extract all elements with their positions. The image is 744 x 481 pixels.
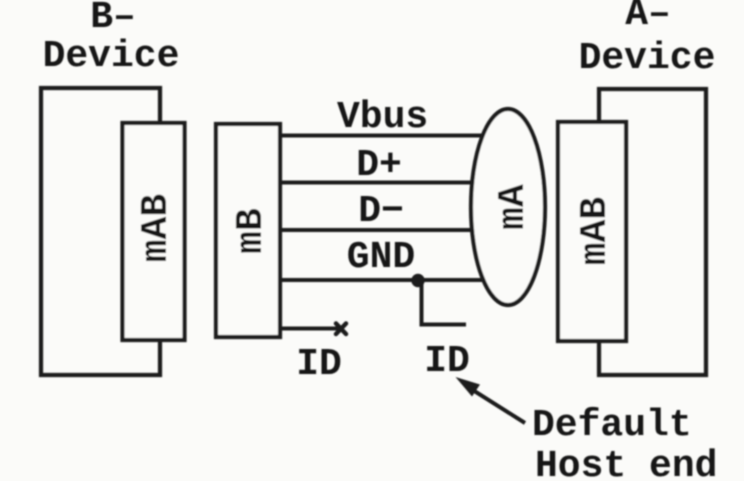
svg-text:mA: mA — [492, 184, 535, 230]
B-Device outer box — [41, 88, 160, 375]
svg-text:ID: ID — [296, 343, 342, 386]
svg-text:mAB: mAB — [574, 197, 617, 265]
svg-text:mAB: mAB — [135, 194, 178, 262]
A-Device outer box — [599, 89, 706, 375]
svg-text:ID: ID — [424, 340, 470, 383]
wire ID stub (A side) — [422, 281, 467, 325]
svg-text:mB: mB — [230, 208, 273, 254]
connector mAB (B side) — [123, 123, 185, 340]
wire D- — [280, 228, 508, 232]
svg-text:Vbus: Vbus — [337, 96, 428, 139]
plug mA (ellipse) — [471, 109, 545, 305]
svg-text:Device: Device — [579, 37, 716, 80]
svg-text:B–: B– — [90, 0, 136, 39]
wire ID stub from mB — [280, 327, 338, 331]
svg-text:Default: Default — [532, 404, 692, 447]
plug mB — [216, 124, 280, 337]
no-connect X mark — [336, 324, 346, 335]
svg-text:D−: D− — [358, 190, 404, 233]
connector mAB (A side) — [558, 122, 626, 341]
wire GND — [280, 278, 508, 282]
svg-text:Device: Device — [43, 35, 180, 78]
wire Vbus — [280, 134, 508, 138]
svg-text:GND: GND — [347, 236, 415, 279]
svg-text:Host end: Host end — [535, 445, 717, 481]
wire D+ — [280, 181, 508, 185]
arrow to ID (Default Host end pointer) — [468, 387, 525, 423]
junction dot on GND — [411, 274, 424, 287]
svg-text:A–: A– — [625, 0, 671, 36]
svg-text:D+: D+ — [356, 144, 402, 187]
